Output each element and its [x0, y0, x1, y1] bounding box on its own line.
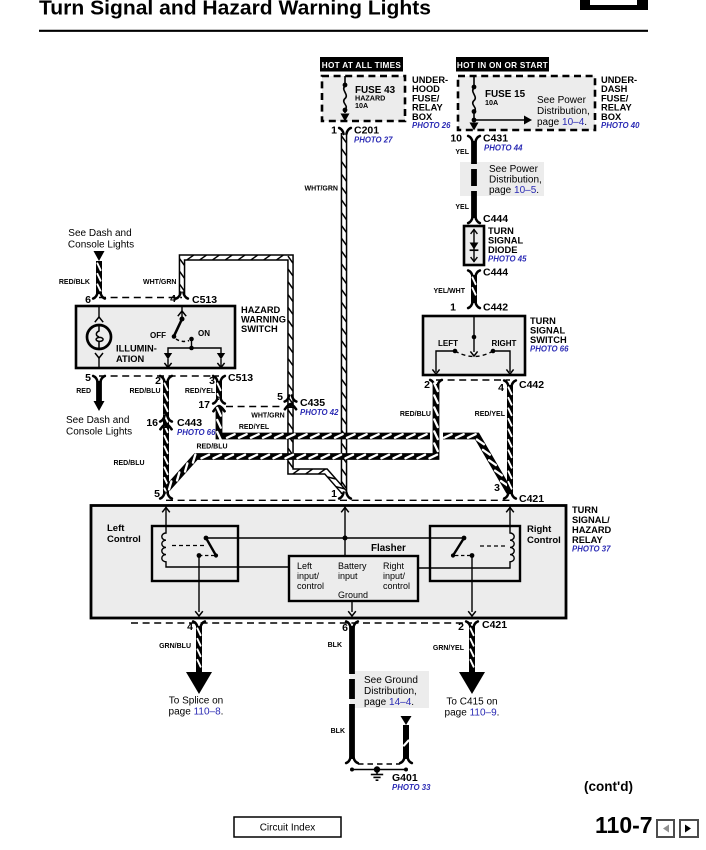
- svg-text:RED/YEL: RED/YEL: [185, 388, 216, 395]
- turn signal/hazard relay box: [91, 506, 566, 619]
- svg-text:Console Lights: Console Lights: [66, 427, 132, 438]
- fuse 15 value label: [485, 89, 526, 107]
- svg-text:Flasher: Flasher: [371, 543, 406, 554]
- incoming arrow from dash lights: [94, 251, 105, 261]
- label RED/BLU (C442 pin 2): [400, 411, 431, 418]
- G401 connector dashed link: [358, 763, 400, 765]
- svg-text:Control: Control: [107, 534, 141, 545]
- svg-text:BLK: BLK: [331, 728, 345, 735]
- label BLK upper: [328, 642, 342, 649]
- label RED/YEL (horizontal run): [239, 424, 270, 431]
- label RED/BLU (vertical run): [113, 460, 144, 467]
- svg-text:WARNING: WARNING: [241, 315, 286, 325]
- right relay coil: [418, 526, 514, 568]
- svg-text:RED: RED: [76, 388, 91, 395]
- svg-text:To C415 on: To C415 on: [446, 697, 497, 708]
- svg-text:C442: C442: [483, 302, 508, 314]
- connector C442 pins 2 and 4: [424, 379, 544, 394]
- svg-text:C442: C442: [519, 379, 544, 391]
- label WHT/GRN (C435): [251, 413, 284, 420]
- svg-text:See Dash and: See Dash and: [68, 228, 131, 239]
- circuit index button: [234, 817, 341, 837]
- nav button next: [680, 820, 698, 837]
- under-dash fuse/relay box: [458, 76, 595, 130]
- svg-text:4: 4: [498, 382, 504, 394]
- fuse 43 value label: [355, 85, 396, 110]
- connector C421 pins 4 6 2: [131, 619, 507, 634]
- banner HOT IN ON OR START: [456, 57, 549, 72]
- svg-text:RED/BLU: RED/BLU: [113, 460, 144, 467]
- label RED/BLK: [59, 279, 90, 286]
- svg-text:2: 2: [458, 621, 464, 633]
- fuse 43 (HAZARD 10A): [341, 76, 350, 122]
- svg-text:1: 1: [331, 488, 337, 500]
- svg-text:SWITCH: SWITCH: [530, 335, 567, 345]
- svg-text:OFF: OFF: [150, 331, 166, 340]
- svg-text:PHOTO 26: PHOTO 26: [412, 121, 451, 130]
- svg-text:RIGHT: RIGHT: [492, 339, 517, 348]
- left control relay box: [152, 526, 238, 581]
- wire GRN/YEL relay pin 2 to C415: [459, 626, 485, 694]
- relay pin 5 lead with arrow: [162, 505, 170, 526]
- svg-text:page 110–8.: page 110–8.: [169, 707, 224, 718]
- note: see dash and console lights (bottom): [66, 415, 132, 438]
- svg-text:page 10–4.: page 10–4.: [537, 117, 587, 128]
- svg-text:10A: 10A: [485, 98, 498, 107]
- label GRN/BLU: [159, 643, 191, 650]
- svg-text:ATION: ATION: [116, 354, 145, 364]
- svg-text:TURN: TURN: [488, 226, 514, 236]
- right control relay box: [430, 526, 520, 581]
- svg-text:C444: C444: [483, 213, 508, 225]
- turn signal diode label: [488, 226, 527, 264]
- svg-text:C444: C444: [483, 267, 508, 279]
- svg-text:Right: Right: [527, 524, 552, 535]
- wire GRN/BLU relay pin 4 to splice: [186, 626, 212, 694]
- svg-text:control: control: [297, 581, 324, 591]
- wire RED/BLU branch relay pin 5 to C442 pin 2: [167, 383, 438, 489]
- wire RED from hazard pin 5: [94, 381, 105, 411]
- svg-text:C421: C421: [482, 619, 507, 631]
- connector C435 pin 5: [277, 391, 339, 417]
- turn signal diode D: [464, 226, 484, 265]
- label ON: [198, 329, 210, 338]
- label GRN/YEL: [433, 645, 465, 652]
- turn signal switch pole and contacts: [432, 317, 513, 374]
- note: see power distribution page 10-4: [537, 95, 590, 128]
- banner HOT AT ALL TIMES: [320, 57, 403, 72]
- svg-text:110-7: 110-7: [595, 812, 653, 838]
- svg-text:RED/BLU: RED/BLU: [196, 444, 227, 451]
- svg-text:HAZARD: HAZARD: [241, 305, 281, 315]
- connector C444 lower: [468, 267, 508, 279]
- svg-text:PHOTO 27: PHOTO 27: [354, 136, 393, 145]
- svg-text:PHOTO 66: PHOTO 66: [177, 428, 216, 437]
- svg-text:C421: C421: [519, 493, 544, 505]
- svg-text:control: control: [383, 581, 410, 591]
- svg-text:Control: Control: [527, 535, 561, 546]
- svg-text:See Dash and: See Dash and: [66, 415, 129, 426]
- connector C513 pins 5 2 3: [85, 372, 253, 387]
- flasher ground lead: [348, 601, 356, 616]
- label BLK lower: [331, 728, 345, 735]
- label WHT/GRN: [305, 186, 338, 193]
- label RIGHT: [492, 339, 517, 348]
- svg-text:RELAY: RELAY: [572, 535, 603, 545]
- svg-text:See Power: See Power: [489, 164, 539, 175]
- svg-text:WHT/GRN: WHT/GRN: [305, 186, 338, 193]
- note: see dash and console lights (top): [68, 228, 134, 251]
- svg-text:GRN/YEL: GRN/YEL: [433, 645, 465, 652]
- wire RED/YEL pin 17 to relay pin 3: [217, 407, 509, 492]
- connector C421 pins 5 1 3: [154, 482, 544, 505]
- turn signal switch label: [530, 316, 569, 354]
- label YEL upper: [455, 149, 469, 156]
- left relay switch: [172, 536, 218, 616]
- svg-text:RED/BLU: RED/BLU: [400, 411, 431, 418]
- svg-text:1: 1: [450, 302, 456, 314]
- under-dash fuse/relay box label: [601, 75, 640, 130]
- svg-text:DIODE: DIODE: [488, 245, 517, 255]
- hazard warning switch label: [241, 305, 286, 334]
- hazard warning switch box: [76, 306, 235, 368]
- svg-text:Circuit Index: Circuit Index: [260, 823, 316, 834]
- svg-text:SIGNAL: SIGNAL: [530, 326, 565, 336]
- G401 riser wire with incoming arrow: [400, 716, 412, 763]
- svg-text:WHT/GRN: WHT/GRN: [251, 413, 284, 420]
- svg-text:ON: ON: [198, 329, 210, 338]
- dashed link pin 17 to C435 pin 5: [226, 406, 284, 408]
- svg-text:Left: Left: [297, 561, 313, 571]
- svg-text:PHOTO 37: PHOTO 37: [572, 545, 611, 554]
- note: to C415 on page 110-9: [445, 697, 500, 719]
- wire RED/YEL C442 pin 4 to relay pin 3: [508, 385, 511, 494]
- svg-text:YEL: YEL: [455, 204, 469, 211]
- left relay coil: [162, 526, 289, 567]
- svg-text:BLK: BLK: [328, 642, 342, 649]
- nav button previous: [657, 820, 674, 837]
- svg-text:ILLUMIN-: ILLUMIN-: [116, 344, 157, 354]
- svg-text:PHOTO 42: PHOTO 42: [300, 408, 339, 417]
- svg-text:page 110–9.: page 110–9.: [445, 708, 500, 719]
- svg-text:RED/YEL: RED/YEL: [239, 424, 270, 431]
- svg-text:Ground: Ground: [338, 590, 368, 600]
- note box: see ground distribution page 14-4: [350, 671, 429, 708]
- svg-text:Distribution,: Distribution,: [364, 686, 417, 697]
- svg-text:PHOTO 66: PHOTO 66: [530, 345, 569, 354]
- right relay switch: [451, 536, 508, 616]
- battery feed line pin 1 to both contacts: [206, 536, 464, 541]
- svg-text:PHOTO 45: PHOTO 45: [488, 255, 527, 264]
- svg-text:16: 16: [146, 417, 158, 429]
- connector C444 upper: [468, 213, 508, 225]
- label Left Control: [107, 523, 141, 545]
- svg-text:input/: input/: [383, 571, 406, 581]
- label Flasher: [371, 543, 406, 554]
- connector C443 pin 16: [146, 416, 216, 438]
- svg-text:page 10–5.: page 10–5.: [489, 185, 539, 196]
- wire WHT/GRN from C201 down to relay pin 1: [342, 133, 346, 494]
- svg-text:Console Lights: Console Lights: [68, 240, 134, 251]
- arrow to power distribution note: [474, 116, 532, 125]
- svg-text:SWITCH: SWITCH: [241, 324, 278, 334]
- page title: [39, 0, 431, 20]
- svg-text:RED/BLU: RED/BLU: [129, 388, 160, 395]
- wire BLK relay pin 6 to G401: [346, 626, 358, 763]
- svg-text:4: 4: [187, 621, 193, 633]
- note box: see power distribution page 10-5: [460, 162, 544, 196]
- cropped bookmark icon top right: [580, 0, 648, 10]
- svg-text:input/: input/: [297, 571, 320, 581]
- flasher unit box: [289, 556, 418, 601]
- label OFF: [150, 331, 166, 340]
- svg-text:To Splice on: To Splice on: [169, 696, 223, 707]
- svg-text:(cont'd): (cont'd): [584, 779, 633, 794]
- illumination lamp: [87, 306, 111, 368]
- svg-text:See Power: See Power: [537, 95, 587, 106]
- svg-text:HOT IN ON OR START: HOT IN ON OR START: [457, 61, 548, 70]
- svg-text:Turn Signal and Hazard Warning: Turn Signal and Hazard Warning Lights: [39, 0, 431, 20]
- svg-text:1: 1: [331, 125, 337, 137]
- svg-text:Battery: Battery: [338, 561, 367, 571]
- svg-text:6: 6: [85, 294, 91, 306]
- svg-text:HAZARD: HAZARD: [572, 525, 612, 535]
- note: to splice on page 110-8: [169, 696, 224, 718]
- label YEL/WHT: [434, 288, 466, 295]
- wire WHT/GRN from hazard switch pin 4 via C435 to relay pin 1: [180, 255, 344, 492]
- svg-text:17: 17: [198, 399, 210, 411]
- connector C201 pin 1: [331, 125, 393, 145]
- svg-text:5: 5: [277, 391, 283, 403]
- connector pin 17: [198, 398, 225, 412]
- ground bus and G401 symbol: [350, 766, 408, 780]
- svg-text:10A: 10A: [355, 101, 368, 110]
- title underline: [39, 30, 648, 32]
- svg-text:Distribution,: Distribution,: [537, 106, 590, 117]
- connector C431 pin 10: [450, 133, 523, 153]
- label RED: [76, 388, 91, 395]
- svg-text:input: input: [338, 571, 358, 581]
- svg-text:YEL: YEL: [455, 149, 469, 156]
- svg-text:TURN: TURN: [530, 316, 556, 326]
- label ILLUMINATION: [116, 344, 157, 365]
- svg-text:Distribution,: Distribution,: [489, 175, 542, 186]
- svg-text:YEL/WHT: YEL/WHT: [434, 288, 466, 295]
- svg-text:C513: C513: [192, 294, 217, 306]
- svg-text:10: 10: [450, 133, 462, 145]
- hazard switch contacts OFF/ON: [164, 306, 225, 368]
- svg-text:5: 5: [85, 372, 91, 384]
- label RED/YEL (hazard pin 3): [185, 388, 216, 395]
- svg-text:SIGNAL/: SIGNAL/: [572, 515, 610, 525]
- label WHT/GRN (hazard pin 4): [143, 279, 176, 286]
- wire YEL C431 to C444: [471, 141, 477, 218]
- svg-text:LEFT: LEFT: [438, 339, 458, 348]
- connector C513 pins 6 and 4: [85, 293, 217, 307]
- label RED/BLU (branch run): [196, 444, 227, 451]
- wire RED/BLK to hazard pin 6: [97, 261, 100, 294]
- svg-text:Left: Left: [107, 523, 125, 534]
- svg-text:See Ground: See Ground: [364, 675, 418, 686]
- svg-text:GRN/BLU: GRN/BLU: [159, 643, 191, 650]
- connector C442 pin 1: [450, 302, 508, 314]
- svg-text:HOT AT ALL TIMES: HOT AT ALL TIMES: [322, 61, 402, 70]
- label RED/YEL (C442 pin 4): [475, 411, 506, 418]
- wire YEL/WHT C444 to C442: [472, 275, 475, 303]
- svg-text:WHT/GRN: WHT/GRN: [143, 279, 176, 286]
- label LEFT: [438, 339, 458, 348]
- under-hood fuse/relay box label: [412, 75, 451, 130]
- turn signal/hazard relay label: [572, 505, 612, 554]
- svg-text:C513: C513: [228, 372, 253, 384]
- svg-text:PHOTO 33: PHOTO 33: [392, 783, 431, 792]
- label RED/BLU (hazard pin 2): [129, 388, 160, 395]
- label YEL lower: [455, 204, 469, 211]
- under-hood fuse/relay box: [322, 76, 405, 121]
- label G401: [392, 772, 431, 792]
- svg-text:TURN: TURN: [572, 505, 598, 515]
- fuse 15 (10A): [470, 76, 479, 131]
- svg-text:6: 6: [342, 622, 348, 634]
- page number 110-7: [595, 812, 653, 838]
- svg-text:PHOTO 44: PHOTO 44: [484, 144, 523, 153]
- svg-text:Right: Right: [383, 561, 405, 571]
- svg-text:page 14–4.: page 14–4.: [364, 697, 414, 708]
- wire RED/BLU hazard pin 2 to relay pin 5: [164, 381, 167, 495]
- svg-text:RED/BLK: RED/BLK: [59, 279, 90, 286]
- wire RED/YEL hazard pin 3 down to pin 17: [217, 381, 220, 401]
- relay pin 3 lead with arrow: [506, 505, 514, 526]
- svg-text:3: 3: [494, 482, 500, 494]
- svg-text:PHOTO 40: PHOTO 40: [601, 121, 640, 130]
- flasher terminal labels: [297, 561, 410, 600]
- label (cont'd): [584, 779, 633, 794]
- svg-text:SIGNAL: SIGNAL: [488, 236, 523, 246]
- svg-text:RED/YEL: RED/YEL: [475, 411, 506, 418]
- relay pin 1 lead with arrow: [341, 505, 349, 556]
- turn signal switch box: [423, 316, 525, 375]
- label Right Control: [527, 524, 561, 546]
